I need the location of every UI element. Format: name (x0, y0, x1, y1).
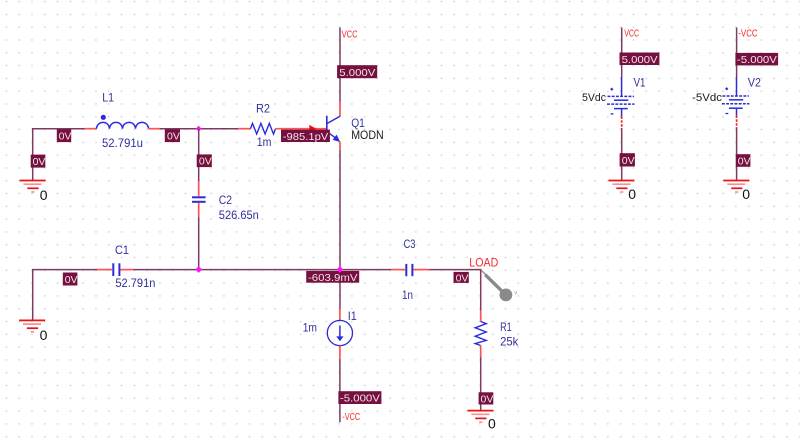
inductor L1 pin stub left (85, 128, 97, 130)
transistor Q1 (327, 116, 340, 142)
svg-text:0V: 0V (59, 131, 72, 143)
svg-text:0: 0 (488, 416, 496, 432)
svg-text:VCC: VCC (624, 28, 639, 39)
wire VCC rail V1 top (621, 28, 623, 78)
current direction marker (red arrow on Q1 base) (309, 125, 316, 133)
svg-text:C3: C3 (404, 237, 416, 251)
wire C2 branch junction to capacitor (198, 129, 200, 181)
bias label 0V (V2 ground wire) (736, 154, 751, 167)
wire V1 to ground (621, 129, 623, 180)
svg-text:v: v (514, 290, 517, 296)
capacitor C3 pin stub right (414, 269, 430, 271)
capacitor C2 pin stub top (198, 181, 200, 196)
svg-text:R1: R1 (500, 320, 512, 334)
resistor R2 (250, 123, 275, 134)
resistor R2 pin stub right / Q1 base pin (276, 128, 327, 130)
source V1 battery (607, 77, 635, 116)
svg-text:-VCC: -VCC (342, 412, 360, 423)
capacitor C2 pin stub bottom (198, 203, 200, 218)
wire R1 to ground (480, 358, 482, 411)
capacitor C1 pin stub left (97, 269, 112, 271)
svg-text:0V: 0V (199, 156, 212, 168)
inductor L1 phase dot (101, 115, 106, 120)
svg-text:5.000V: 5.000V (622, 54, 658, 66)
svg-text:0V: 0V (622, 155, 635, 167)
capacitor C3 (406, 264, 412, 276)
wire top-left vertical riser to ground (32, 128, 34, 180)
bias label -985.1pV (Q1 base) (281, 130, 330, 143)
bias label -5.000V (V2) (735, 53, 778, 66)
ground 0 (V1) (609, 181, 635, 193)
transistor Q1 collector pin stub (339, 102, 341, 117)
svg-text:V2: V2 (748, 76, 761, 90)
voltage probe at LOAD (482, 271, 518, 302)
svg-text:5Vdc: 5Vdc (582, 92, 606, 104)
ground 0 (below R1) (468, 411, 494, 423)
svg-text:-5.000V: -5.000V (340, 393, 380, 405)
wire mid-left vertical riser to ground (32, 269, 34, 320)
capacitor C1 pin stub right (121, 269, 134, 271)
svg-text:526.65n: 526.65n (219, 208, 259, 222)
svg-text:V1: V1 (634, 76, 646, 90)
ground 0 (V2) (723, 181, 749, 193)
bias label 5.000V (V1) (620, 53, 660, 66)
wire Q1 emitter down through mid junction to I1 (339, 150, 341, 309)
wire mid-left horizontal to C1 (32, 269, 97, 271)
bias label -603.9mV (mid rail) (306, 271, 359, 284)
ground 0 (mid-left) (19, 320, 45, 332)
svg-text:L1: L1 (102, 91, 114, 105)
bias label -5.000V (bottom center) (338, 391, 381, 405)
bias label 0V (left riser) (31, 155, 46, 169)
bias label 5.000V (Q1 collector) (337, 65, 377, 79)
junction node (mid, Q1 emitter / I1) (337, 266, 344, 273)
wire VCC rail down to Q1 collector (339, 28, 341, 102)
svg-text:52.791n: 52.791n (115, 276, 155, 290)
svg-text:LOAD: LOAD (469, 258, 498, 270)
wire C3 to LOAD corner (430, 269, 482, 271)
svg-text:-VCC: -VCC (738, 28, 757, 39)
svg-text:5.000V: 5.000V (339, 67, 375, 79)
ground 0 (top-left) (20, 181, 46, 193)
capacitor C3 pin stub left (391, 269, 405, 271)
wire V2 to ground (736, 129, 738, 181)
resistor R1 pin stub top (480, 311, 482, 322)
svg-text:0V: 0V (456, 273, 469, 285)
svg-text:-5Vdc: -5Vdc (692, 92, 723, 104)
svg-text:0V: 0V (167, 131, 180, 143)
wire L1 to R2 (160, 128, 238, 130)
svg-text:0V: 0V (65, 274, 78, 286)
wire LOAD corner down to R1 (480, 269, 482, 311)
bias label 0V (R1 ground) (479, 392, 494, 405)
resistor R1 (475, 322, 486, 346)
junction node (mid, C1/C2 branch) (195, 266, 202, 273)
bias label 0V (V1 ground wire) (620, 153, 635, 167)
svg-text:-603.9mV: -603.9mV (308, 272, 358, 284)
svg-text:0V: 0V (738, 156, 751, 168)
inductor L1 (97, 122, 149, 128)
svg-text:C1: C1 (115, 243, 129, 257)
svg-text:0V: 0V (481, 393, 494, 405)
wire top-left horizontal from ground riser to L1 (32, 128, 85, 130)
bias label 0V (C1 left) (63, 273, 78, 287)
svg-text:C2: C2 (219, 193, 232, 207)
wire I1 to -VCC rail bottom (339, 360, 341, 423)
svg-text:0: 0 (40, 187, 48, 203)
svg-text:1m: 1m (303, 320, 317, 334)
source V2 battery (722, 77, 750, 115)
svg-text:0: 0 (40, 327, 48, 343)
svg-text:52.791u: 52.791u (102, 136, 143, 150)
svg-text:MODN: MODN (351, 128, 384, 142)
wire -VCC rail V2 top (736, 28, 738, 78)
resistor R1 pin stub bottom (480, 346, 482, 358)
transistor Q1 emitter pin stub (339, 142, 341, 151)
wire C2 to mid rail (198, 218, 200, 270)
svg-text:1n: 1n (402, 288, 413, 302)
svg-text:I1: I1 (348, 309, 357, 323)
svg-text:0: 0 (628, 186, 636, 202)
source V1 bottom pin stub (dashed red) (621, 116, 623, 129)
current source I1 pin stub bottom (339, 346, 341, 360)
capacitor C2 (192, 197, 206, 202)
svg-text:-985.1pV: -985.1pV (283, 131, 329, 143)
svg-text:R2: R2 (256, 102, 270, 116)
junction node (top, L1/R2/C2) (196, 126, 202, 132)
wire mid horizontal C1 junction to C3 (134, 269, 392, 271)
svg-text:25k: 25k (500, 335, 519, 349)
svg-text:VCC: VCC (342, 29, 358, 40)
bias label 0V (C2 branch) (197, 154, 212, 167)
current source I1 pin stub top (339, 309, 341, 321)
svg-text:0: 0 (742, 186, 750, 202)
bias label 0V (right of L1) (165, 129, 180, 142)
svg-text:-5.000V: -5.000V (737, 54, 777, 66)
capacitor C1 (113, 263, 119, 276)
bias label 0V (LOAD) (454, 272, 469, 285)
current source I1 (327, 320, 352, 345)
source V2 bottom pin stub (red) (736, 115, 738, 128)
svg-text:1m: 1m (257, 135, 272, 149)
bias label 0V (top-left wire) (57, 129, 72, 142)
svg-text:0V: 0V (33, 156, 46, 168)
inductor L1 pin stub right (149, 128, 161, 130)
resistor R2 pin stub left (238, 128, 250, 130)
